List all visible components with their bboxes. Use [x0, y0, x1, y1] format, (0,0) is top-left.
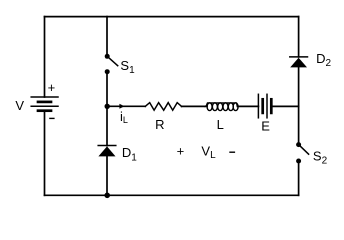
resistor R — [145, 103, 181, 111]
svg-text:+: + — [177, 144, 185, 159]
wire middle branch junction to D1 — [106, 106, 108, 145]
node junction middle — [105, 104, 110, 109]
wire left rail upper — [44, 17, 46, 97]
wire right rail S2 to bottom — [298, 161, 300, 195]
wire middle branch upper — [106, 17, 108, 57]
diode D1 — [98, 146, 116, 157]
node junction bottom — [104, 193, 110, 199]
wire right rail upper — [298, 17, 300, 57]
wire inductor to battery E — [238, 105, 259, 107]
wire bottom rail — [45, 194, 299, 196]
wire top rail — [45, 16, 299, 18]
wire junction to resistor with current arrow — [107, 104, 145, 109]
wire battery E to right rail — [271, 105, 298, 107]
switch S1 — [105, 54, 118, 74]
battery E — [258, 94, 271, 118]
wire right rail D2 to S2 — [298, 67, 300, 144]
svg-text:L: L — [217, 117, 224, 132]
label VL minus — [229, 151, 235, 153]
svg-text:R: R — [155, 117, 164, 132]
wire resistor to inductor — [182, 105, 207, 107]
svg-text:D2: D2 — [316, 51, 331, 69]
diode D2 — [290, 57, 308, 68]
inductor L — [205, 103, 238, 111]
svg-text:S2: S2 — [313, 149, 328, 167]
switch S2 — [296, 142, 309, 163]
label battery minus — [49, 117, 54, 119]
svg-text:V: V — [15, 98, 24, 113]
wire middle branch D1 to bottom — [106, 156, 108, 195]
svg-text:D1: D1 — [122, 145, 137, 163]
battery V — [31, 97, 58, 111]
svg-text:VL: VL — [201, 144, 216, 161]
svg-text:S1: S1 — [120, 58, 135, 76]
svg-text:E: E — [261, 119, 270, 134]
svg-text:iL: iL — [120, 109, 128, 125]
svg-text:+: + — [48, 80, 56, 95]
wire left rail lower — [44, 111, 46, 196]
wire middle branch S1 to junction — [106, 72, 108, 107]
